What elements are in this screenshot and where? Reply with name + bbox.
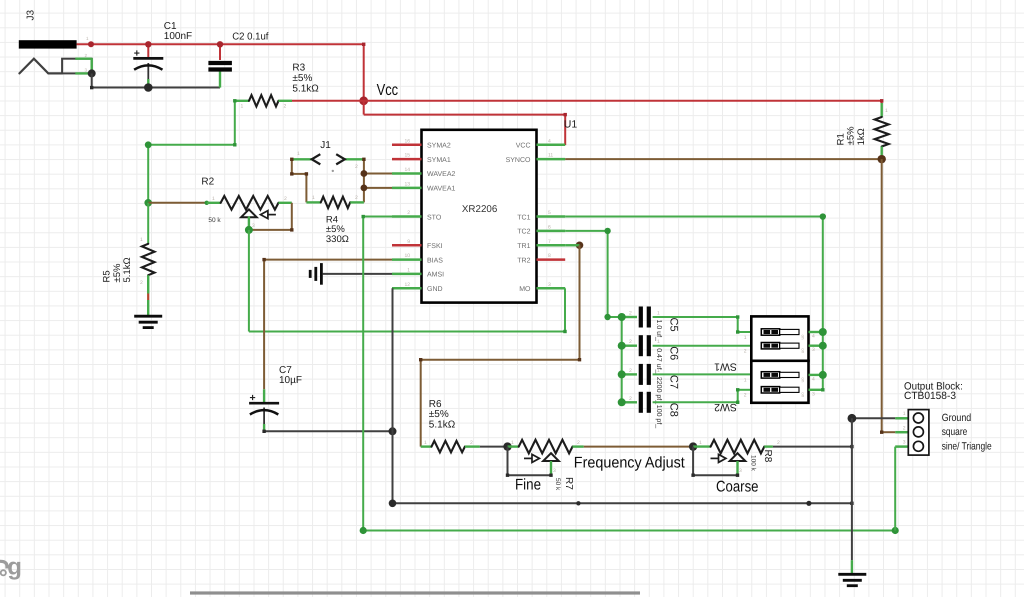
wire R8 to ground column — [773, 445, 854, 448]
svg-text:1: 1 — [657, 396, 660, 402]
svg-text:16: 16 — [404, 138, 410, 144]
wire output pin1 to ground column — [852, 417, 895, 419]
svg-text:100nF: 100nF — [164, 31, 192, 42]
wire R2 wiper down to MO net — [248, 230, 250, 332]
svg-text:WAVEA2: WAVEA2 — [427, 171, 456, 178]
label C1 100nF — [164, 21, 192, 42]
svg-text:5.1kΩ: 5.1kΩ — [429, 420, 456, 431]
pin 5 TC1 — [517, 210, 565, 221]
svg-text:2: 2 — [629, 396, 632, 402]
scrollbar line — [190, 591, 640, 594]
svg-text:2: 2 — [284, 104, 287, 110]
svg-text:1: 1 — [657, 368, 660, 374]
node R2 left junction — [144, 199, 152, 207]
label R4 — [326, 215, 349, 245]
node TR1 junction — [576, 241, 584, 249]
svg-text:3: 3 — [812, 347, 815, 353]
svg-text:SYNCO: SYNCO — [506, 157, 531, 164]
pin 14 WAVEA2 — [392, 167, 456, 178]
wire C7 minus to GND net — [262, 430, 392, 433]
node Vcc junction — [359, 96, 368, 105]
wire output pin2 square — [880, 431, 895, 434]
svg-text:2: 2 — [744, 392, 747, 398]
svg-text:9: 9 — [407, 239, 410, 245]
svg-text:square: square — [942, 426, 968, 438]
wire Vcc top rail — [77, 43, 366, 101]
svg-text:2: 2 — [777, 440, 780, 446]
svg-text:TR2: TR2 — [517, 257, 530, 264]
potentiometer R2 — [207, 196, 292, 230]
svg-text:BIAS: BIAS — [427, 257, 443, 264]
svg-text:SYMA1: SYMA1 — [427, 157, 451, 164]
pin 7 TR1 — [517, 239, 565, 250]
resistor R3 — [235, 95, 292, 109]
svg-text:3: 3 — [739, 468, 742, 474]
svg-text:50 k: 50 k — [208, 217, 221, 224]
svg-text:1.0 uf_: 1.0 uf_ — [655, 320, 663, 342]
svg-text:13: 13 — [404, 181, 410, 187]
wire BIAS to C7 plus — [262, 258, 392, 403]
svg-text:1: 1 — [511, 440, 514, 446]
wire AMSI to ground — [323, 273, 393, 275]
wire SYNCO to R1 bottom — [565, 158, 882, 160]
wire TC2 down to cap column — [565, 228, 622, 320]
svg-text:Coarse: Coarse — [716, 479, 759, 496]
node R2 wiper junction — [245, 226, 253, 234]
pin 2 STO — [392, 210, 442, 221]
svg-text:2: 2 — [577, 440, 580, 446]
node R8 left junction — [689, 442, 697, 450]
svg-text:4: 4 — [812, 377, 815, 383]
ground at AMSI — [320, 263, 323, 285]
svg-text:2: 2 — [407, 210, 410, 216]
svg-text:XR2206: XR2206 — [462, 204, 498, 215]
svg-text:2: 2 — [744, 349, 747, 355]
barrel jack J3 — [19, 36, 94, 74]
svg-text:1: 1 — [657, 339, 660, 345]
capacitor C2 — [208, 41, 232, 88]
wire R2 right to wiper — [249, 203, 294, 232]
svg-text:2: 2 — [629, 368, 632, 374]
svg-text:1: 1 — [407, 267, 410, 273]
svg-text:on: on — [801, 377, 806, 383]
svg-text:1kΩ: 1kΩ — [856, 128, 867, 145]
svg-text:4: 4 — [548, 138, 551, 144]
op-amp U1 XR2206 body — [422, 130, 537, 303]
svg-text:1: 1 — [885, 108, 888, 114]
wire J1 right to WAVEA pins and R4 right — [361, 158, 393, 203]
wire cap column — [621, 317, 623, 402]
svg-text:WAVEA1: WAVEA1 — [427, 186, 456, 193]
pin 4 VCC — [516, 138, 565, 149]
svg-text:R2: R2 — [201, 177, 214, 188]
svg-text:3: 3 — [553, 468, 556, 474]
svg-text:on: on — [801, 348, 806, 354]
svg-text:3: 3 — [85, 68, 88, 73]
svg-text:11: 11 — [548, 153, 553, 159]
label R5 — [102, 257, 134, 282]
resistor R1 — [875, 99, 889, 159]
node R1 bottom junction — [878, 155, 886, 163]
svg-text:±5%: ±5% — [112, 263, 123, 282]
svg-text:±5%: ±5% — [292, 73, 312, 84]
svg-text:10: 10 — [404, 253, 410, 259]
svg-text:1: 1 — [744, 335, 747, 341]
svg-text:3: 3 — [903, 439, 906, 445]
wire switch right column — [809, 328, 827, 392]
resistor R4 — [306, 195, 364, 208]
wire output pin3 sine — [894, 447, 896, 531]
svg-text:TR1: TR1 — [517, 243, 530, 250]
svg-text:C8: C8 — [668, 403, 680, 417]
potentiometer R7 Fine — [508, 440, 584, 475]
svg-text:C5: C5 — [668, 318, 680, 332]
ground bottom right — [838, 573, 866, 576]
svg-text:SYMA2: SYMA2 — [427, 143, 451, 150]
svg-text:J3: J3 — [26, 10, 37, 21]
wire R7 wiper loop — [506, 447, 553, 477]
svg-text:1: 1 — [297, 151, 300, 157]
svg-text:SW2: SW2 — [714, 401, 737, 413]
svg-text:R7: R7 — [563, 477, 574, 490]
svg-text:3: 3 — [812, 391, 815, 397]
pin 13 WAVEA1 — [392, 181, 456, 192]
svg-text:1: 1 — [312, 195, 315, 201]
resistor R6 — [421, 440, 480, 452]
svg-text:330Ω: 330Ω — [326, 234, 349, 245]
potentiometer R8 Coarse — [693, 440, 780, 475]
wire TC1 to switch column — [565, 213, 826, 332]
svg-text:5: 5 — [548, 210, 551, 216]
svg-text:2: 2 — [470, 440, 473, 446]
wire Vcc to U1 VCC pin — [364, 101, 567, 145]
pin 15 SYMA1 — [392, 153, 451, 164]
svg-text:C7: C7 — [668, 375, 680, 389]
svg-text:SW1: SW1 — [714, 361, 737, 373]
svg-text:3: 3 — [548, 282, 551, 288]
svg-text:1: 1 — [744, 378, 747, 384]
svg-text:2: 2 — [85, 53, 88, 58]
capacitor C7 2200 pf — [618, 364, 752, 385]
switch SW2 — [744, 361, 815, 403]
svg-text:1: 1 — [241, 104, 244, 110]
capacitor C5 1.0 uf — [618, 307, 752, 334]
svg-text:2: 2 — [355, 164, 358, 170]
svg-text:+: + — [134, 47, 140, 59]
svg-text:C6: C6 — [668, 346, 680, 360]
pin 6 TC2 — [517, 224, 565, 235]
svg-text:14: 14 — [404, 167, 410, 173]
svg-text:2: 2 — [355, 195, 358, 201]
svg-text:Fine: Fine — [515, 477, 541, 494]
svg-text:Frequency Adjust: Frequency Adjust — [574, 455, 686, 472]
watermark ng — [0, 554, 22, 581]
wire R6 to R7 — [480, 446, 508, 448]
pin 11 SYNCO — [506, 153, 566, 164]
svg-text:U1: U1 — [564, 119, 578, 131]
svg-text:4: 4 — [812, 334, 815, 340]
svg-text:±5%: ±5% — [846, 126, 857, 145]
svg-text:100 k: 100 k — [750, 455, 757, 472]
svg-text:100 pf_: 100 pf_ — [655, 405, 663, 428]
label R6 — [429, 399, 456, 431]
svg-text:on: on — [801, 335, 806, 341]
svg-text:CTB0158-3: CTB0158-3 — [904, 390, 956, 402]
svg-text:VCC: VCC — [516, 143, 531, 150]
ground below R5 — [134, 315, 162, 318]
svg-text:1: 1 — [212, 196, 215, 202]
jumper J1 — [292, 151, 364, 172]
svg-text:±5%: ±5% — [429, 409, 449, 420]
svg-text:R8: R8 — [762, 450, 773, 463]
wire jack to C1/C2 ground — [90, 73, 220, 89]
svg-text:1: 1 — [140, 237, 143, 243]
node R7 left junction — [503, 442, 511, 450]
svg-text:GND: GND — [427, 286, 443, 293]
svg-text:7: 7 — [548, 239, 551, 245]
svg-text:1: 1 — [424, 440, 427, 446]
svg-text:TC1: TC1 — [517, 214, 530, 221]
wire R7 to R8 — [584, 446, 693, 448]
pin 12 GND — [392, 282, 443, 293]
wire R1 junction down to output pin 2 — [881, 159, 883, 432]
connector CTB0158-3 — [895, 410, 929, 456]
svg-text:8: 8 — [548, 253, 551, 259]
svg-text:2: 2 — [629, 339, 632, 345]
wire STO to output pin 3 — [360, 215, 899, 534]
svg-text:Ground: Ground — [942, 412, 972, 424]
svg-text:J1: J1 — [320, 140, 331, 151]
pin 1 AMSI — [392, 267, 444, 278]
node jack sleeve junction — [88, 69, 96, 77]
pin 10 BIAS — [392, 253, 443, 264]
capacitor C7 10uF — [249, 392, 279, 431]
svg-text:on: on — [801, 392, 806, 398]
svg-text:2: 2 — [140, 280, 143, 286]
svg-text:2: 2 — [629, 311, 632, 317]
wire R8 wiper loop — [691, 447, 739, 477]
svg-text:1: 1 — [657, 311, 660, 317]
resistor R5 — [140, 203, 155, 317]
wire TR1 to R6 — [419, 245, 581, 446]
svg-text:sine/ Triangle: sine/ Triangle — [942, 440, 992, 452]
label C7 10uF — [279, 365, 302, 386]
svg-text:AMSI: AMSI — [427, 272, 444, 279]
svg-text:STO: STO — [427, 214, 442, 221]
svg-text:2: 2 — [903, 425, 906, 431]
svg-text:15: 15 — [404, 153, 410, 159]
node ground column top — [848, 414, 857, 423]
svg-text:12: 12 — [404, 282, 410, 288]
svg-text:MO: MO — [519, 286, 531, 293]
capacitor C8 100 pf — [618, 388, 752, 413]
svg-text:5.1kΩ: 5.1kΩ — [292, 84, 319, 95]
node C1 minus junction — [144, 83, 153, 92]
svg-text:5.1kΩ: 5.1kΩ — [122, 257, 133, 282]
switch SW1 — [744, 316, 815, 360]
svg-text:FSKI: FSKI — [427, 243, 443, 250]
label R3 — [292, 63, 319, 95]
node C7 GND junction — [389, 427, 397, 435]
wire J1 left to R4 left — [290, 158, 308, 203]
wire MO to R2 wiper net — [249, 288, 567, 333]
wire ground column — [851, 418, 853, 573]
pin 16 SYMA2 — [392, 138, 451, 149]
capacitor C6 0.47 uf — [618, 335, 752, 356]
svg-text:TC2: TC2 — [517, 229, 530, 236]
label R1 — [836, 126, 868, 145]
wire GND pin down and across — [389, 288, 854, 507]
svg-text:Vcc: Vcc — [377, 82, 399, 99]
svg-text:2: 2 — [284, 196, 287, 202]
label Output Block — [0, 380, 992, 594]
svg-text:10µF: 10µF — [279, 375, 302, 386]
svg-text:1: 1 — [903, 411, 906, 417]
svg-text:50 k: 50 k — [554, 478, 561, 491]
wire Vcc horizontal to R1 — [292, 100, 882, 102]
wire R3 left down to R2 node — [145, 99, 237, 203]
svg-text:g: g — [7, 554, 22, 581]
svg-text:1: 1 — [699, 440, 702, 446]
wire node to R2 — [148, 201, 209, 205]
pin 8 TR2 — [517, 253, 565, 264]
capacitor C1 — [133, 41, 163, 87]
svg-text:C2 0.1uf: C2 0.1uf — [232, 32, 269, 43]
svg-text:+: + — [250, 392, 256, 404]
pin 3 MO — [519, 282, 565, 293]
pin 9 FSKI — [392, 239, 443, 250]
svg-text:1: 1 — [86, 36, 89, 41]
svg-text:6: 6 — [548, 224, 551, 230]
